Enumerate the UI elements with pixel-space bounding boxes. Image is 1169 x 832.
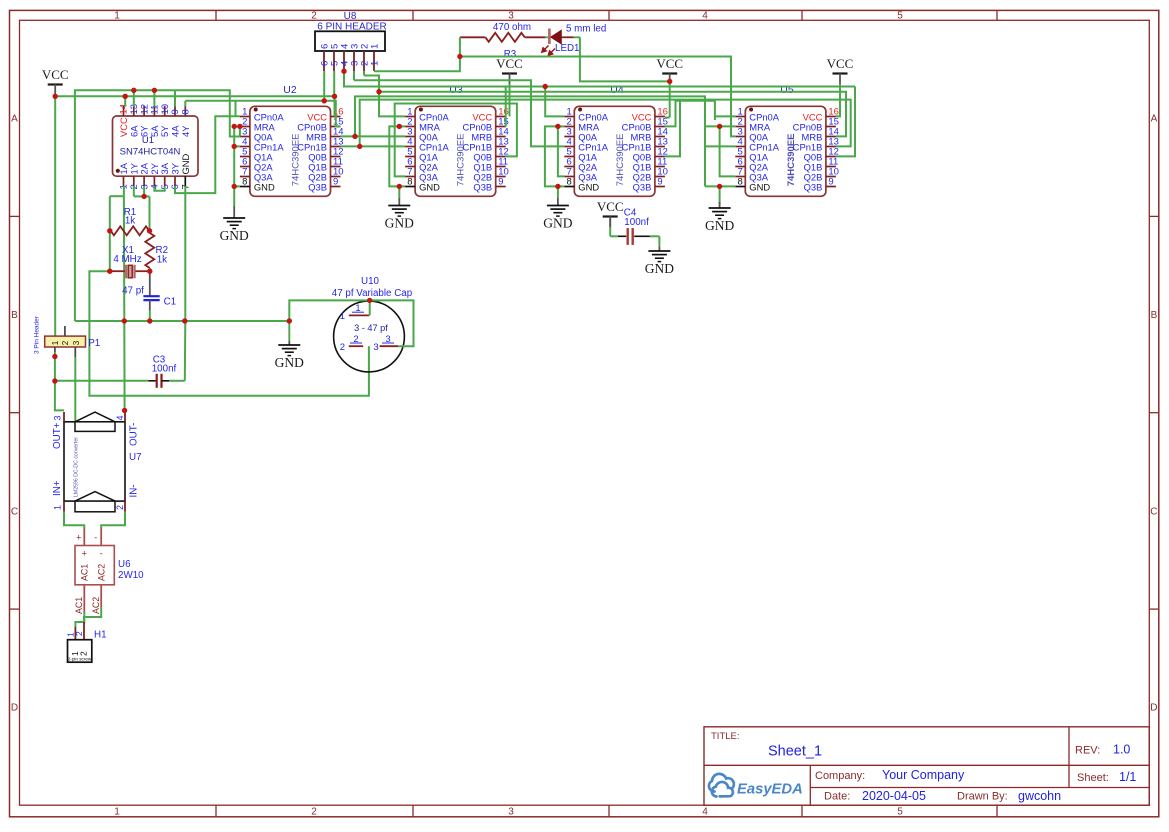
svg-text:1: 1 bbox=[369, 44, 380, 49]
svg-text:Q3B: Q3B bbox=[308, 181, 327, 192]
svg-text:9: 9 bbox=[498, 177, 503, 188]
svg-text:2: 2 bbox=[340, 342, 345, 353]
svg-text:8: 8 bbox=[181, 109, 192, 114]
EasyEDA logo bbox=[709, 774, 803, 798]
svg-text:gwcohn: gwcohn bbox=[1018, 789, 1061, 803]
svg-text:EasyEDA: EasyEDA bbox=[737, 782, 803, 798]
wire LED1 cathode to VCC U4 and U4 pin16 bbox=[580, 37, 670, 81]
wire U3 MRA/GND tie bbox=[389, 126, 405, 186]
wire U1 pin6 to U2 pin1 bbox=[175, 116, 240, 193]
svg-text:AC2: AC2 bbox=[97, 564, 107, 581]
svg-text:H1: H1 bbox=[94, 630, 107, 641]
wire VCC rail y96: VCC to U1 pin14 to U8 pin5 / U2 pin16 bbox=[55, 95, 334, 97]
wire C1 to GND row bbox=[149, 310, 151, 321]
svg-text:9: 9 bbox=[657, 177, 662, 188]
svg-text:U7: U7 bbox=[129, 452, 142, 463]
ground GND (U3) bbox=[398, 198, 400, 206]
svg-text:1: 1 bbox=[340, 311, 345, 322]
connector H1 2-pin screw bbox=[66, 622, 107, 662]
svg-text:2: 2 bbox=[74, 631, 84, 636]
IC U1 SN74HCT04N body bbox=[113, 116, 199, 176]
svg-text:Sheet:: Sheet: bbox=[1077, 772, 1109, 784]
svg-text:2: 2 bbox=[311, 807, 317, 818]
ground GND (U5) bbox=[719, 202, 721, 208]
wire VCC U3 stem to pin16 bbox=[509, 84, 511, 116]
svg-text:-: - bbox=[94, 533, 97, 543]
capacitor C4 100nf bbox=[610, 208, 659, 247]
U1 bottom pins 1-7 bbox=[118, 153, 192, 189]
svg-text:GND: GND bbox=[180, 153, 191, 174]
wire P1 pin3 to U7 bbox=[74, 357, 76, 422]
IC U2 74HC390 body bbox=[250, 106, 331, 196]
wire chain U2 pin14 / U3 pin3 to U5 left column (y96 bus) bbox=[340, 96, 705, 186]
svg-text:P1: P1 bbox=[88, 338, 100, 349]
wire bus y101: U1 pin8 to U2 pin15 with U2 pin1 branch bbox=[184, 101, 186, 107]
title block frame bbox=[704, 727, 1149, 805]
svg-text:VCC: VCC bbox=[496, 56, 523, 71]
svg-text:VCC: VCC bbox=[597, 199, 624, 214]
svg-text:5: 5 bbox=[897, 11, 903, 22]
wire U1 pin7 GND column to C3 bbox=[184, 186, 186, 321]
svg-text:GND: GND bbox=[645, 261, 674, 276]
wire U4 pin7 tie bbox=[558, 126, 564, 176]
svg-text:2: 2 bbox=[115, 505, 125, 510]
svg-text:100nf: 100nf bbox=[152, 364, 177, 375]
svg-text:3: 3 bbox=[508, 11, 514, 22]
wire X1 left to U10 bottom (long run) bbox=[89, 271, 369, 396]
svg-text:OUT+: OUT+ bbox=[52, 422, 63, 449]
svg-text:2: 2 bbox=[78, 651, 88, 656]
wire R3 to U8 pins 1 and 4 bbox=[374, 37, 460, 71]
IC U4 74HC390 body bbox=[574, 106, 655, 196]
wire U5 MRA/GND tie and pin7 tie bbox=[705, 125, 735, 127]
svg-text:C: C bbox=[1150, 507, 1157, 518]
svg-text:D: D bbox=[11, 703, 18, 714]
svg-text:Sheet_1: Sheet_1 bbox=[768, 744, 822, 760]
svg-text:Your Company: Your Company bbox=[882, 768, 965, 782]
svg-text:3: 3 bbox=[508, 807, 514, 818]
svg-text:Company:: Company: bbox=[815, 770, 865, 782]
U4 left pins 1-8 bbox=[564, 107, 608, 193]
svg-text:100nf: 100nf bbox=[624, 217, 649, 228]
svg-text:C1: C1 bbox=[164, 297, 177, 308]
svg-text:1k: 1k bbox=[125, 216, 135, 227]
wire U7 pin2 to U6 - bbox=[101, 512, 125, 529]
svg-text:GND: GND bbox=[419, 181, 440, 192]
svg-text:4: 4 bbox=[115, 415, 125, 420]
svg-text:LM2596 DC-DC converter: LM2596 DC-DC converter bbox=[74, 437, 80, 497]
wire U1 pin1 to R1 left bbox=[110, 195, 124, 197]
U2 right pins 9-16 bbox=[297, 107, 343, 193]
svg-text:9: 9 bbox=[828, 177, 833, 188]
svg-text:C: C bbox=[11, 507, 18, 518]
svg-text:+: + bbox=[82, 549, 87, 559]
svg-text:IN-: IN- bbox=[129, 484, 140, 497]
wire R1 left to X1 left bbox=[109, 231, 111, 271]
svg-text:GND: GND bbox=[578, 181, 599, 192]
variable capacitor U10 47 pf bbox=[332, 276, 413, 372]
svg-text:TITLE:: TITLE: bbox=[711, 731, 740, 742]
U1 top pins 14-8 bbox=[118, 104, 192, 137]
svg-text:REV:: REV: bbox=[1075, 745, 1100, 757]
svg-text:B: B bbox=[11, 310, 18, 321]
svg-text:4 MHz: 4 MHz bbox=[113, 254, 141, 265]
wire chain U2 pin13 / U3 pin4 to U4 pin12 / U5 pin13 (y99 bus) bbox=[340, 100, 850, 147]
LED LED1 5 mm led bbox=[542, 24, 606, 56]
wire U4 MRA/GND tie bbox=[545, 126, 558, 186]
wire U2 pin2-pin3 tie bbox=[239, 126, 241, 136]
ground GND (near U10) bbox=[288, 321, 290, 341]
svg-text:GND: GND bbox=[705, 218, 734, 233]
resistor R3 470 ohm bbox=[460, 22, 545, 60]
wire R3 node to U5 pin3 (y56 run) bbox=[460, 57, 735, 137]
svg-text:1: 1 bbox=[369, 61, 380, 66]
svg-text:1/1: 1/1 bbox=[1119, 770, 1136, 784]
svg-text:D: D bbox=[1150, 703, 1157, 714]
svg-text:IN+: IN+ bbox=[52, 480, 63, 496]
svg-text:Drawn By:: Drawn By: bbox=[957, 791, 1008, 803]
connector U8 6 PIN HEADER body bbox=[315, 11, 387, 51]
resistor R2 1k bbox=[145, 233, 168, 268]
ground GND (U2) bbox=[233, 206, 235, 218]
svg-text:U6: U6 bbox=[118, 559, 131, 570]
wire U6 AC2 to H1 pin2 bbox=[100, 597, 102, 607]
svg-text:1: 1 bbox=[51, 340, 60, 345]
svg-text:5 mm led: 5 mm led bbox=[566, 24, 606, 35]
svg-text:A: A bbox=[1151, 114, 1158, 125]
svg-text:1: 1 bbox=[114, 807, 120, 818]
U5 right pins 9-16 bbox=[793, 107, 839, 193]
IC U5 74HC390 body bbox=[745, 106, 826, 196]
ground GND (C4) bbox=[658, 246, 660, 251]
wire U10 top loop bbox=[289, 300, 413, 346]
bridge rectifier U6 2W10 bbox=[74, 529, 144, 615]
capacitor C1 47 pf bbox=[122, 271, 176, 310]
svg-text:4Y: 4Y bbox=[180, 125, 191, 137]
svg-text:GND: GND bbox=[254, 181, 275, 192]
wire U8 pin5 drop bbox=[333, 71, 335, 96]
wire U6 AC1 to H1 pin1 bbox=[83, 597, 85, 612]
svg-text:+: + bbox=[76, 533, 81, 543]
svg-text:U8: U8 bbox=[344, 11, 357, 22]
svg-text:A: A bbox=[11, 114, 18, 125]
crystal X1 4 MHz bbox=[110, 245, 150, 278]
svg-text:47 pf Variable Cap: 47 pf Variable Cap bbox=[332, 288, 413, 299]
svg-text:B: B bbox=[1151, 310, 1158, 321]
svg-text:U10: U10 bbox=[361, 276, 380, 287]
svg-text:8: 8 bbox=[242, 177, 247, 188]
svg-text:VCC: VCC bbox=[42, 67, 69, 82]
svg-text:U2: U2 bbox=[283, 84, 297, 96]
svg-text:1.0: 1.0 bbox=[1113, 743, 1130, 757]
wire U2 MRA/GND tie column bbox=[234, 125, 240, 127]
svg-text:LED1: LED1 bbox=[555, 43, 580, 54]
svg-text:GND: GND bbox=[749, 181, 770, 192]
svg-text:2W10: 2W10 bbox=[118, 570, 144, 581]
svg-text:2: 2 bbox=[61, 340, 70, 345]
U3 right pins 9-16 bbox=[462, 107, 508, 193]
svg-text:-: - bbox=[100, 549, 103, 559]
wire U7 pin1 to U6 + bbox=[64, 512, 84, 529]
wire VCC rail column x55 down through P1 bbox=[54, 96, 56, 336]
svg-text:VCC: VCC bbox=[656, 56, 683, 71]
svg-text:1k: 1k bbox=[157, 255, 167, 266]
svg-text:1: 1 bbox=[53, 505, 63, 510]
wire U1 pins2,3 to R1 right bbox=[133, 186, 135, 196]
svg-text:8: 8 bbox=[738, 177, 743, 188]
svg-text:AC1: AC1 bbox=[74, 597, 84, 614]
wire VCC U5 stem to pin16 bbox=[836, 84, 840, 116]
svg-text:5: 5 bbox=[897, 807, 903, 818]
svg-text:Q3B: Q3B bbox=[804, 181, 823, 192]
wire P1 pin1 to C3 node and U7 pin3 bbox=[54, 352, 56, 381]
wire U8 pin6 drop to bus y101 bbox=[323, 71, 325, 101]
svg-text:470 ohm: 470 ohm bbox=[493, 22, 531, 33]
svg-text:3 - 47 pf: 3 - 47 pf bbox=[354, 323, 388, 333]
svg-text:2020-04-05: 2020-04-05 bbox=[862, 789, 926, 803]
svg-text:GND: GND bbox=[385, 216, 414, 231]
wire U5 pin1-pin7 feed column bbox=[714, 116, 716, 120]
wire chain U8 pin2 to U3 pin1 and U5 pin14 (y91 bus) bbox=[364, 76, 846, 137]
svg-text:GND: GND bbox=[543, 216, 572, 231]
svg-text:3: 3 bbox=[53, 415, 63, 420]
connector P1 3 Pin Header bbox=[34, 315, 101, 357]
U8 pins 6-1 bbox=[319, 44, 380, 71]
junction dots bbox=[52, 54, 722, 413]
wire X1 right to C1 bbox=[149, 268, 151, 271]
capacitor C3 100nf bbox=[55, 355, 185, 388]
svg-text:8: 8 bbox=[567, 177, 572, 188]
svg-text:47 pf: 47 pf bbox=[122, 286, 144, 297]
U5 left pins 1-8 bbox=[735, 107, 779, 193]
svg-text:3 Pin Header: 3 Pin Header bbox=[34, 315, 41, 354]
svg-text:OUT-: OUT- bbox=[129, 423, 140, 446]
svg-text:2: 2 bbox=[311, 11, 317, 22]
svg-text:VCC: VCC bbox=[827, 56, 854, 71]
wire U5 GND stem bbox=[719, 186, 721, 204]
svg-text:9: 9 bbox=[333, 177, 338, 188]
wire U3 pin7 loop to U3 pin12 (y103 staple) bbox=[395, 104, 517, 177]
svg-text:AC1: AC1 bbox=[80, 564, 90, 581]
U3 left pins 1-8 bbox=[405, 107, 449, 193]
ground GND (U4) bbox=[557, 198, 559, 206]
wire U4 GND stem bbox=[557, 186, 559, 198]
wire U1 top bracket y90: pins 13 11 9 and left column bbox=[75, 90, 240, 321]
svg-text:GND: GND bbox=[275, 355, 304, 370]
svg-text:Q3B: Q3B bbox=[473, 181, 492, 192]
svg-text:4: 4 bbox=[702, 807, 708, 818]
svg-text:Date:: Date: bbox=[824, 791, 850, 803]
wire chain U3 pin15 / U4 pin1 / U5 pin12 (y86 bus) bbox=[506, 86, 855, 88]
svg-text:3: 3 bbox=[373, 342, 378, 353]
wire GND row y321 bbox=[75, 320, 289, 322]
svg-text:Q3B: Q3B bbox=[633, 181, 652, 192]
svg-text:2-pin screw: 2-pin screw bbox=[68, 657, 92, 662]
svg-text:4: 4 bbox=[702, 11, 708, 22]
svg-text:3: 3 bbox=[72, 340, 81, 345]
module U7 LM2596 DC-DC converter bbox=[52, 412, 142, 512]
wire chain U8 pin4 joins y86 bus bbox=[344, 71, 506, 86]
svg-text:SN74HCT04N: SN74HCT04N bbox=[120, 147, 181, 158]
svg-text:8: 8 bbox=[407, 177, 412, 188]
wire U1 pin1 column down to GND row and U7 pin4 bbox=[123, 186, 125, 196]
svg-text:AC2: AC2 bbox=[91, 597, 101, 614]
resistor R1 1k bbox=[111, 207, 150, 235]
U2 left pins 1-8 bbox=[240, 107, 284, 193]
IC U3 74HC390 body bbox=[415, 106, 496, 196]
wire U3 GND stem bbox=[398, 186, 400, 198]
wire chain U8 pin3 to U4 pin4 (y80 run) bbox=[354, 80, 564, 146]
wire U1 pin4-pin5 loop bbox=[154, 186, 164, 191]
svg-text:1: 1 bbox=[114, 11, 120, 22]
U4 right pins 9-16 bbox=[622, 107, 668, 193]
wire chain U4 pin15 to U5 pin1 (y100 run) bbox=[665, 101, 735, 127]
svg-text:GND: GND bbox=[220, 228, 249, 243]
